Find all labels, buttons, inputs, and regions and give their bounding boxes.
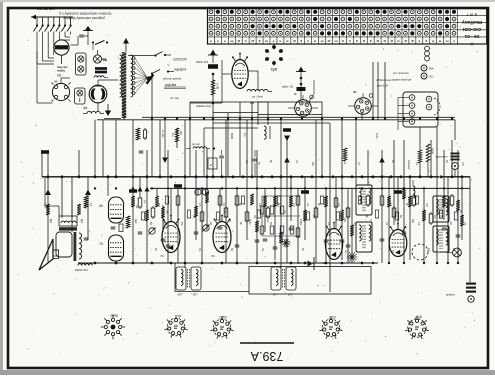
svg-text:0,1: 0,1 — [143, 200, 146, 204]
mains selector switch S2 — [128, 52, 188, 72]
junction — [151, 262, 154, 265]
chain link — [425, 46, 430, 61]
wire — [335, 177, 337, 228]
junction — [221, 262, 224, 265]
ground bus — [78, 262, 378, 264]
wire — [251, 102, 253, 177]
wire — [94, 120, 96, 177]
junction — [212, 73, 215, 76]
capacitor — [138, 231, 143, 233]
svg-text:7A: 7A — [160, 254, 164, 258]
wire — [381, 150, 383, 263]
IF transformer IFT4 — [356, 222, 372, 252]
capacitor — [166, 244, 171, 246]
wire — [61, 177, 63, 218]
wire — [201, 188, 203, 263]
wire — [123, 98, 125, 120]
svg-text:6B: 6B — [353, 90, 357, 94]
junction — [47, 175, 50, 178]
electrolytic cap 2 — [202, 189, 208, 195]
svg-text:5000: 5000 — [431, 148, 435, 154]
capacitor — [161, 238, 166, 240]
long return wire — [37, 52, 53, 104]
wire — [280, 120, 282, 268]
mains switch S1 — [92, 41, 108, 51]
RC pair left — [136, 128, 146, 153]
resistor box — [296, 228, 300, 237]
svg-text:8μF: 8μF — [80, 219, 83, 224]
IF transformer IFT5 — [433, 196, 449, 222]
arrow symbol 2 — [145, 187, 150, 192]
capacitor block — [41, 150, 49, 154]
arrow symbol 4 — [379, 157, 385, 163]
svg-text:47: 47 — [237, 39, 241, 43]
svg-text:4μF: 4μF — [134, 219, 137, 224]
junction — [184, 175, 187, 178]
junction — [151, 187, 153, 189]
svg-text:0,1: 0,1 — [369, 219, 372, 223]
wire — [71, 177, 73, 218]
detector socket view U3 — [355, 98, 372, 115]
svg-text:47: 47 — [327, 39, 331, 43]
svg-text:BT7: BT7 — [193, 294, 198, 297]
scribble star 1 — [347, 252, 358, 263]
wire — [301, 116, 303, 120]
resistor box — [346, 208, 350, 217]
resistor pro var — [186, 143, 210, 149]
svg-text:AL: AL — [177, 314, 182, 318]
grid leak cluster top right — [413, 180, 415, 198]
svg-text:4f: 4f — [404, 39, 407, 43]
junction — [236, 187, 238, 189]
heater rail upper — [142, 116, 455, 118]
junction — [61, 175, 64, 178]
wire — [361, 113, 363, 120]
interstage caps — [111, 216, 130, 232]
junction — [361, 262, 364, 265]
wire — [219, 188, 221, 221]
svg-text:5000: 5000 — [230, 133, 234, 139]
wire — [267, 102, 269, 125]
wire — [372, 62, 374, 120]
audio output tube V5 — [232, 53, 248, 89]
wire — [256, 150, 258, 263]
resistor — [131, 196, 135, 207]
electrolytic cap 1 — [195, 189, 201, 195]
resistor — [255, 221, 259, 232]
capacitor block — [129, 189, 137, 193]
svg-text:CIC-CBI: CIC-CBI — [462, 26, 481, 32]
antenna coil L1 — [54, 40, 69, 64]
wire — [457, 150, 459, 263]
wire — [419, 163, 421, 177]
trimmer capacitor C1 — [71, 30, 88, 45]
padder box 2 — [75, 88, 86, 104]
capacitor — [255, 239, 260, 241]
resistor — [387, 196, 391, 207]
resistor — [340, 210, 344, 221]
coupling text labels — [170, 96, 247, 139]
arrow to filter — [104, 104, 121, 119]
voltage selector taps — [132, 57, 147, 95]
heater rail lower — [97, 119, 455, 121]
antenna trimmer and jack — [446, 283, 476, 303]
wire — [351, 188, 353, 263]
gramophone jack — [436, 153, 460, 177]
wire — [87, 177, 89, 240]
capacitor block — [301, 190, 309, 194]
svg-text:739.A: 739.A — [250, 349, 283, 363]
tube base diagram B4 — [319, 315, 342, 339]
junction — [351, 175, 354, 178]
RC ladder cluster — [260, 196, 300, 236]
capacitor — [263, 238, 268, 240]
junction — [461, 187, 463, 189]
capacitor — [442, 227, 447, 229]
resistor — [350, 225, 354, 236]
svg-text:pro removku: pro removku — [392, 71, 409, 75]
svg-text:0,1: 0,1 — [389, 203, 392, 207]
junction — [94, 262, 97, 265]
svg-text:5A: 5A — [323, 261, 327, 265]
junction — [221, 187, 223, 189]
resistor box — [151, 208, 155, 217]
resistor box — [224, 208, 228, 217]
svg-text:47: 47 — [251, 39, 255, 43]
phantom socket — [412, 244, 428, 260]
rail junction dots — [151, 118, 453, 120]
title underline — [240, 342, 294, 344]
svg-text:iv: iv — [397, 39, 400, 43]
junction — [94, 175, 97, 178]
heater labels right — [375, 78, 392, 139]
AF tube V4 — [109, 235, 124, 261]
junction — [132, 175, 135, 178]
resistor — [408, 196, 412, 207]
junction — [184, 262, 187, 265]
svg-text:sv: sv — [445, 39, 449, 43]
resistor — [456, 200, 460, 211]
resistor — [289, 196, 293, 207]
resistor — [155, 196, 159, 207]
resistor — [205, 192, 209, 203]
junction — [78, 175, 81, 178]
resistor — [279, 232, 283, 243]
svg-text:mag dyn: mag dyn — [57, 65, 68, 69]
mains pilot arrow — [123, 38, 129, 52]
junction — [146, 175, 149, 178]
resistor box — [138, 198, 142, 207]
IF transformer can IFT1b — [178, 267, 201, 297]
svg-text:6Ω: 6Ω — [57, 74, 62, 78]
pickup terminals — [391, 65, 434, 82]
junction — [261, 175, 264, 178]
wire — [162, 205, 164, 232]
tube base diagram CyO — [265, 45, 283, 72]
junction — [341, 262, 344, 265]
wire — [170, 188, 172, 221]
resistor mid right 2 — [418, 150, 422, 163]
svg-text:FROG 013: FROG 013 — [75, 268, 88, 272]
line capacitor block C3 — [95, 71, 107, 74]
junction — [274, 187, 276, 189]
svg-text:0,1: 0,1 — [222, 203, 225, 207]
junction — [461, 175, 464, 178]
junction — [256, 187, 258, 189]
svg-text:2M: 2M — [312, 215, 315, 218]
wire — [159, 120, 161, 177]
resistor — [194, 206, 198, 217]
wire — [315, 120, 317, 263]
junction — [301, 175, 304, 178]
wire — [156, 188, 158, 196]
wire — [388, 177, 390, 263]
tube data table grid — [208, 8, 488, 46]
wire — [355, 120, 357, 185]
junction — [94, 187, 96, 189]
junction — [213, 147, 215, 149]
resistor — [273, 196, 277, 207]
svg-text:sv: sv — [334, 39, 338, 43]
output tube V7 — [162, 215, 180, 253]
svg-text:OZO: OZO — [219, 315, 227, 319]
wire — [176, 128, 178, 148]
capacitor — [273, 246, 278, 248]
svg-text:0,1: 0,1 — [415, 162, 418, 166]
arrow symbol 3 — [284, 157, 290, 163]
resistor box — [450, 196, 454, 205]
junction — [419, 175, 422, 178]
svg-text:napájení: napájení — [174, 68, 187, 72]
svg-text:0,1M: 0,1M — [216, 83, 220, 90]
svg-text:NO OD SXT: NO OD SXT — [37, 7, 57, 11]
svg-text:2M: 2M — [179, 131, 182, 134]
junction — [242, 175, 245, 178]
capacitor — [194, 231, 199, 233]
tone box outline — [204, 128, 258, 177]
dial lamp — [446, 248, 461, 257]
resistor — [460, 215, 464, 226]
trimmer capacitor T1 — [149, 228, 156, 235]
capacitor block — [174, 184, 182, 188]
svg-text:4f: 4f — [362, 39, 365, 43]
trimmer capacitor T2 — [203, 225, 210, 232]
AF tube V3 — [109, 197, 124, 223]
arrow feed 1 — [44, 190, 52, 209]
mixer tube V9 — [325, 222, 342, 260]
junction — [332, 175, 335, 178]
resistor box — [392, 208, 396, 217]
resistor — [77, 204, 81, 215]
svg-text:síťový spínač: síťový spínač — [163, 77, 182, 81]
svg-text:h: h — [245, 39, 247, 43]
svg-text:CO7: CO7 — [328, 315, 336, 319]
junction — [443, 187, 445, 189]
wire — [325, 188, 327, 263]
junction — [212, 102, 215, 105]
wire — [47, 150, 49, 263]
junction — [201, 262, 204, 265]
resistor box — [200, 212, 204, 221]
tone switch box Z — [208, 147, 224, 176]
voltage selector rotor — [146, 74, 155, 85]
wire — [430, 140, 432, 177]
svg-text:anténa: anténa — [446, 293, 455, 297]
wire — [184, 120, 186, 268]
wire — [115, 120, 117, 177]
wire — [397, 177, 399, 230]
svg-text:0,1: 0,1 — [295, 160, 298, 164]
capacitor — [380, 238, 385, 240]
wire — [461, 177, 463, 240]
IF transformer IFT3 — [356, 185, 372, 215]
oscillator padding coil L5 — [264, 126, 270, 139]
wire — [367, 150, 369, 185]
junction — [132, 262, 135, 265]
resistor box — [412, 196, 416, 205]
junction — [274, 262, 277, 265]
svg-text:Z: Z — [209, 163, 212, 167]
resistor — [145, 210, 149, 221]
junction — [300, 83, 303, 86]
wire — [447, 177, 449, 263]
padder box with cross capacitors — [76, 53, 87, 75]
line capacitor block C2 — [95, 67, 107, 70]
resistor — [324, 196, 328, 207]
svg-text:0,1: 0,1 — [89, 203, 92, 207]
junction — [341, 187, 343, 189]
svg-text:h: h — [307, 39, 309, 43]
antenna selector bus — [31, 15, 73, 32]
svg-text:7A: 7A — [99, 242, 103, 246]
junction — [256, 262, 259, 265]
svg-text:220/110V: 220/110V — [172, 58, 188, 62]
svg-text:4f: 4f — [383, 39, 386, 43]
svg-text:pojistka: pojistka — [164, 83, 176, 87]
mains switch S3 — [151, 70, 186, 89]
svg-text:6L: 6L — [294, 92, 298, 96]
svg-text:2M: 2M — [311, 162, 314, 165]
svg-text:WAVL 470: WAVL 470 — [196, 60, 209, 64]
svg-text:0,3: 0,3 — [292, 203, 295, 207]
junction — [251, 175, 254, 178]
wire — [212, 74, 214, 177]
svg-text:nf. zes: nf. zes — [161, 130, 164, 138]
wire — [329, 123, 331, 292]
svg-text:4A: 4A — [83, 106, 88, 110]
svg-text:pojatá oblompa: pojatá oblompa — [391, 78, 412, 82]
wire — [436, 127, 438, 263]
resistor R2 vertical — [211, 80, 219, 95]
junction — [440, 175, 443, 178]
junction — [206, 175, 209, 178]
tone coil L3 — [247, 89, 272, 105]
junction — [201, 187, 203, 189]
comb zone labels — [245, 160, 464, 166]
junction — [167, 187, 169, 189]
junction — [195, 175, 198, 178]
junction — [341, 175, 344, 178]
IF transformer can IFT2b — [273, 267, 296, 297]
field coil L4 — [45, 177, 77, 231]
resistor box — [296, 196, 300, 205]
capacitor — [340, 239, 345, 241]
chassis box — [175, 263, 371, 294]
wire — [151, 75, 153, 177]
bleeder resistor R20 — [426, 144, 434, 177]
resistor — [303, 210, 307, 221]
resistor R8 — [175, 128, 182, 142]
capacitor — [456, 234, 461, 236]
wire — [384, 62, 386, 120]
svg-text:mř. zes.: mř. zes. — [170, 96, 180, 100]
svg-text:5000: 5000 — [248, 219, 251, 225]
decoupling cap C7 — [283, 128, 291, 141]
output transformer T2 — [53, 200, 82, 261]
tube base diagram B2 — [164, 314, 187, 338]
svg-text:2M: 2M — [343, 218, 346, 221]
svg-text:0,1: 0,1 — [243, 133, 247, 137]
wire — [167, 150, 169, 263]
svg-text:4f: 4f — [376, 39, 379, 43]
svg-text:ca. Urka: ca. Urka — [252, 95, 263, 99]
ground symbol — [85, 26, 91, 31]
capacitor — [324, 239, 329, 241]
junction — [409, 175, 412, 178]
junction — [184, 187, 186, 189]
svg-text:Vyrobeno antisovětské součástk: Vyrobeno antisovětské součástky n.p. — [58, 12, 112, 16]
junction — [290, 187, 292, 189]
junction — [321, 175, 324, 178]
svg-text:1M: 1M — [180, 222, 183, 225]
wire — [102, 120, 104, 177]
svg-text:9A: 9A — [99, 204, 103, 208]
wire — [443, 150, 445, 220]
tube base diagram B1 — [101, 313, 125, 339]
wire — [189, 102, 191, 177]
svg-text:0,5: 0,5 — [425, 203, 428, 207]
resistor box — [176, 196, 180, 205]
junction — [271, 175, 274, 178]
wire — [304, 177, 306, 240]
svg-text:sv: sv — [265, 39, 269, 43]
wire — [341, 120, 343, 260]
wire — [274, 188, 276, 260]
filter choke L2 — [83, 111, 104, 113]
svg-text:h: h — [280, 39, 282, 43]
junction — [423, 187, 425, 189]
svg-text:4f: 4f — [411, 39, 414, 43]
junction — [107, 175, 110, 178]
wire — [206, 148, 208, 230]
wire — [403, 140, 405, 263]
wire — [286, 138, 288, 263]
wire — [78, 150, 80, 177]
svg-text:0,1: 0,1 — [266, 219, 269, 223]
wire — [225, 120, 227, 263]
resistor box — [429, 214, 433, 223]
svg-text:5000: 5000 — [162, 219, 165, 225]
junction — [381, 175, 384, 178]
grid resistor R1 0.1M — [196, 50, 218, 69]
output tube V8 — [213, 215, 231, 253]
wire — [321, 115, 323, 177]
junction — [304, 262, 307, 265]
secondary bus — [150, 187, 470, 189]
wire — [454, 120, 456, 140]
junction — [221, 175, 224, 178]
junction — [132, 187, 134, 189]
